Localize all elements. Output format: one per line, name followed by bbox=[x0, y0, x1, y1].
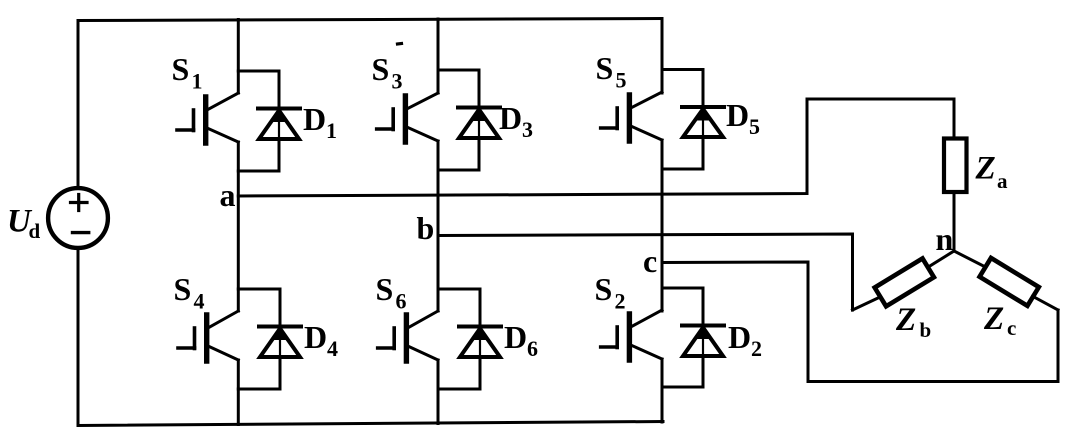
wire Za to node n bbox=[953, 194, 956, 251]
svg-text:S: S bbox=[174, 271, 192, 307]
wire leg3 bottom emitter drop bbox=[661, 359, 664, 422]
wire leg2 midpoint (node b) bbox=[437, 141, 440, 311]
wire left DC bus lower segment bbox=[77, 250, 80, 426]
diode D2 bbox=[682, 326, 724, 388]
svg-text:b: b bbox=[920, 318, 932, 342]
svg-text:a: a bbox=[220, 177, 236, 213]
transistor S1 IGBT bbox=[177, 93, 238, 143]
svg-text:2: 2 bbox=[615, 289, 626, 314]
wire leg1 upper collector drop bbox=[237, 20, 240, 94]
svg-text:1: 1 bbox=[192, 69, 203, 94]
wire Zc outer lead bbox=[1033, 296, 1059, 310]
svg-text:Z: Z bbox=[895, 302, 916, 338]
transistor S4 IGBT bbox=[178, 311, 238, 361]
label D5 bbox=[726, 97, 760, 139]
wire left DC bus upper segment bbox=[77, 21, 80, 187]
impedance Za bbox=[944, 139, 967, 193]
diode D6 bbox=[459, 327, 501, 390]
svg-text:4: 4 bbox=[194, 289, 205, 314]
transistor S3 IGBT bbox=[377, 93, 438, 142]
wire leg1 midpoint (node a) bbox=[237, 142, 240, 311]
wire D1 bottom branch bbox=[238, 139, 279, 171]
wire node n to Zc bbox=[954, 251, 986, 267]
wire leg2 upper collector drop bbox=[437, 19, 440, 93]
transistor S6 IGBT bbox=[378, 311, 438, 361]
wire Zb to node n bbox=[928, 251, 954, 267]
svg-text:Z: Z bbox=[983, 301, 1004, 337]
wire D3 bottom branch bbox=[438, 138, 479, 170]
svg-text:a: a bbox=[997, 169, 1008, 193]
svg-text:n: n bbox=[936, 221, 954, 257]
diode D4 bbox=[259, 327, 301, 390]
diode D5 bbox=[682, 107, 724, 169]
svg-text:D: D bbox=[303, 101, 326, 137]
label S3 bbox=[372, 51, 403, 94]
wire D6 bottom branch bbox=[438, 357, 480, 389]
svg-text:D: D bbox=[728, 319, 751, 355]
wire top DC rail bbox=[78, 19, 662, 21]
svg-text:d: d bbox=[29, 219, 41, 243]
wire phase a output bbox=[238, 99, 954, 196]
wire D2 bottom branch bbox=[662, 356, 703, 387]
svg-text:5: 5 bbox=[749, 114, 760, 139]
svg-text:5: 5 bbox=[616, 68, 627, 93]
label Zc bbox=[983, 301, 1016, 340]
svg-text:Z: Z bbox=[975, 151, 996, 187]
svg-text:b: b bbox=[417, 210, 435, 246]
svg-text:S: S bbox=[596, 50, 614, 86]
source Ud circle bbox=[48, 188, 108, 248]
label S2 bbox=[595, 271, 626, 314]
diode D3 bbox=[458, 108, 500, 171]
wire D5 top branch bbox=[662, 70, 703, 108]
svg-text:S: S bbox=[595, 271, 613, 307]
svg-text:D: D bbox=[304, 319, 327, 355]
svg-text:D: D bbox=[499, 100, 522, 136]
label D4 bbox=[304, 319, 338, 361]
label D6 bbox=[504, 319, 538, 361]
wire phase c output bbox=[662, 262, 1058, 382]
wire D3 top branch bbox=[438, 70, 479, 108]
source Ud minus sign bbox=[73, 231, 89, 234]
wire D5 bottom branch bbox=[662, 137, 703, 169]
svg-text:6: 6 bbox=[396, 289, 407, 314]
node n junction bbox=[953, 250, 956, 253]
svg-text:2: 2 bbox=[751, 336, 762, 361]
svg-text:c: c bbox=[643, 243, 657, 279]
svg-text:6: 6 bbox=[527, 336, 538, 361]
svg-text:S: S bbox=[172, 51, 190, 87]
wire leg3 upper collector drop bbox=[661, 19, 664, 94]
wire D6 top branch bbox=[438, 289, 480, 327]
label D1 bbox=[303, 101, 337, 143]
wire phase b output bbox=[438, 234, 853, 310]
artifact dash above S3 bbox=[398, 42, 402, 46]
svg-text:c: c bbox=[1007, 316, 1016, 340]
wire D2 top branch bbox=[662, 288, 703, 326]
label Ud bbox=[7, 204, 41, 244]
wire D4 top branch bbox=[238, 289, 280, 327]
wire D4 bottom branch bbox=[238, 357, 280, 389]
label S1 bbox=[172, 51, 203, 94]
impedance Zb bbox=[875, 258, 934, 306]
wire leg1 bottom emitter drop bbox=[237, 360, 240, 425]
label S5 bbox=[596, 50, 627, 93]
transistor S2 IGBT bbox=[601, 310, 662, 360]
svg-text:3: 3 bbox=[392, 69, 403, 94]
wire D1 top branch bbox=[238, 71, 279, 109]
label D2 bbox=[728, 319, 762, 361]
transistor S5 IGBT bbox=[601, 92, 662, 141]
svg-text:3: 3 bbox=[522, 117, 533, 142]
svg-text:S: S bbox=[372, 51, 390, 87]
diode D1 bbox=[258, 109, 300, 172]
label S4 bbox=[174, 271, 205, 314]
label D3 bbox=[499, 100, 533, 142]
label S6 bbox=[376, 271, 407, 314]
svg-text:D: D bbox=[504, 319, 527, 355]
wire b riser to Zb bbox=[853, 297, 881, 310]
svg-text:1: 1 bbox=[326, 118, 337, 143]
label Zb bbox=[895, 302, 931, 342]
svg-text:D: D bbox=[726, 97, 749, 133]
svg-text:S: S bbox=[376, 271, 394, 307]
source Ud plus sign bbox=[71, 195, 88, 211]
wire bottom DC rail bbox=[78, 422, 663, 426]
wire leg2 bottom emitter drop bbox=[437, 360, 440, 424]
impedance Zc bbox=[980, 258, 1039, 306]
svg-text:4: 4 bbox=[327, 336, 338, 361]
wire leg3 midpoint (node c) bbox=[661, 140, 664, 311]
label Za bbox=[975, 151, 1009, 194]
